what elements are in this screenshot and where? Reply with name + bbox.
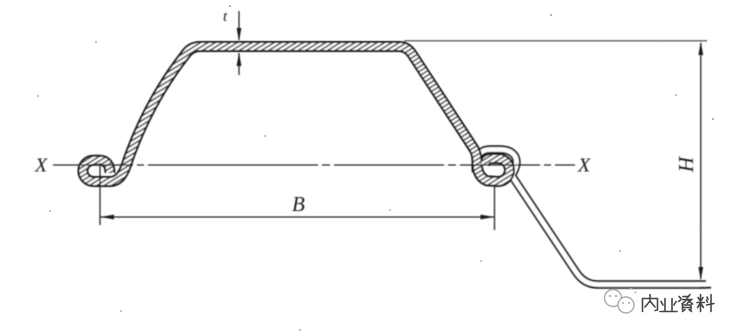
watermark logo (two bubbles) — [605, 290, 635, 314]
t dimension lines and arrows — [237, 11, 242, 75]
资 — [679, 295, 693, 312]
t dimension line lower — [238, 53, 240, 75]
内 — [643, 295, 658, 312]
H top extension line — [404, 40, 707, 42]
t dimension line upper — [238, 11, 240, 40]
H arrow up — [698, 42, 703, 56]
B dimension line — [100, 216, 495, 218]
H dimension line — [700, 43, 702, 279]
svg-text:X: X — [577, 155, 591, 177]
B extension line left — [99, 163, 101, 225]
svg-text:B: B — [292, 192, 305, 216]
X-X centerline (dash-dot) — [53, 164, 575, 166]
料 — [697, 295, 714, 312]
t arrow up — [237, 53, 242, 67]
B arrow left — [100, 215, 114, 220]
B dimension lines and arrows — [100, 163, 495, 230]
H arrow down — [698, 267, 703, 281]
main hatched pile strip: left hook, left web, top flange, right web, right hook — [83, 47, 510, 182]
svg-text:H: H — [674, 155, 698, 173]
B extension line right — [494, 186, 496, 230]
adjacent-pile interlock + web + bottom flange (outline only) — [476, 150, 706, 285]
svg-text:X: X — [34, 155, 48, 177]
watermark text 内业资料 drawn as strokes — [643, 295, 715, 312]
业 — [660, 299, 677, 312]
t arrow down — [237, 28, 242, 41]
H dimension line and arrows — [698, 42, 703, 281]
bottom flange edge extension — [700, 287, 711, 289]
B arrow right — [481, 215, 495, 220]
